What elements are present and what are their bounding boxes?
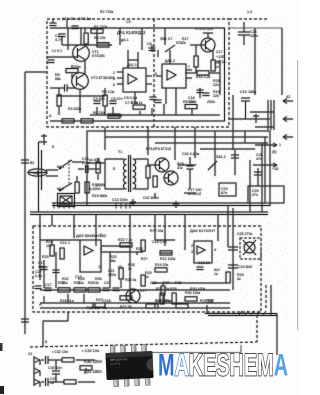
svg-text:R27 5б: R27 5б [120, 305, 132, 309]
svg-text:1n: 1n [215, 65, 219, 69]
svg-text:С15 62: С15 62 [198, 261, 210, 265]
svg-text:A: A [274, 347, 288, 383]
svg-text:22k: 22k [213, 94, 219, 98]
svg-text:1к: 1к [145, 275, 149, 279]
svg-text:2k: 2k [182, 41, 186, 45]
svg-text:R2 720к: R2 720к [100, 10, 114, 14]
svg-text:С14: С14 [60, 241, 67, 245]
svg-text:47л: 47л [252, 193, 258, 197]
svg-text:м 01х12: м 01х12 [188, 192, 201, 196]
svg-text:(2): (2) [118, 265, 122, 269]
svg-text:(1): (1) [96, 183, 100, 187]
svg-text:С42 4,10м: С42 4,10м [182, 152, 200, 156]
svg-text:R8 230к: R8 230к [93, 111, 106, 115]
svg-text:R16 2,2k: R16 2,2k [196, 75, 211, 79]
svg-text:С41 600п: С41 600п [143, 196, 159, 200]
svg-text:С25 270к: С25 270к [237, 232, 253, 236]
svg-text:R1Б 11а: R1Б 11а [60, 299, 74, 303]
svg-text:R38: R38 [170, 287, 177, 291]
svg-text:VT3 КТ315: VT3 КТ315 [195, 27, 213, 31]
svg-text:1,4: 1,4 [247, 10, 252, 14]
svg-text:R36 100А: R36 100А [84, 359, 102, 364]
svg-text:R?? 33к: R?? 33к [150, 229, 164, 233]
svg-text:4: 4 [214, 248, 216, 252]
svg-text:2: 2 [100, 233, 102, 237]
svg-text:R38: R38 [175, 281, 182, 285]
svg-text:R27: R27 [96, 298, 103, 302]
svg-text:1б2н: 1б2н [108, 273, 116, 277]
svg-text:R2?: R2? [141, 257, 148, 261]
svg-text:51к: 51к [62, 281, 68, 285]
svg-text:3к: 3к [128, 267, 132, 271]
svg-text:ВТ5,ВТ6 КТ315: ВТ5,ВТ6 КТ315 [146, 147, 171, 151]
svg-text:C4 40n: C4 40n [93, 97, 105, 101]
svg-text:330к: 330к [73, 65, 81, 69]
svg-text:КТ315Б: КТ315Б [92, 54, 105, 58]
svg-text:R37: R37 [163, 281, 170, 285]
svg-text:1: 1 [68, 241, 70, 245]
svg-text:В1: В1 [30, 161, 34, 165]
svg-text:10n: 10n [188, 100, 194, 104]
svg-text:185n: 185n [248, 90, 256, 94]
svg-text:1к: 1к [214, 272, 218, 276]
svg-text:68к: 68к [55, 77, 61, 81]
svg-text:R39 10к: R39 10к [200, 299, 214, 303]
svg-text:ДА3 К548УН1А2: ДА3 К548УН1А2 [76, 233, 107, 238]
svg-text:А: А [39, 302, 42, 307]
svg-text:С17: С17 [216, 50, 223, 54]
svg-text:м 630н: м 630н [89, 187, 100, 191]
svg-text:2: 2 [113, 71, 115, 75]
svg-text:С8: С8 [147, 42, 152, 46]
svg-text:C5 47n: C5 47n [111, 97, 123, 101]
svg-text:К1.1: К1.1 [57, 165, 64, 169]
svg-text:R26: R26 [88, 281, 95, 285]
svg-text:• С33 10н: • С33 10н [82, 348, 99, 353]
svg-text:R10 1k: R10 1k [131, 101, 143, 105]
svg-text:+12Б: +12Б [216, 55, 225, 59]
svg-text:С22: С22 [150, 281, 157, 285]
svg-text:M: M [158, 347, 175, 383]
svg-text:R31 100к: R31 100к [155, 299, 171, 303]
svg-text:+1Б: +1Б [272, 167, 279, 171]
svg-text:С13 100н: С13 100н [112, 198, 128, 202]
svg-text:С16 0,43: С16 0,43 [152, 240, 167, 244]
svg-text:VT2 КТ361БМ: VT2 КТ361БМ [91, 76, 114, 80]
svg-text:2к: 2к [237, 277, 241, 281]
svg-text:ДА1 К140УД12: ДА1 К140УД12 [117, 30, 146, 35]
svg-text:R32 20к: R32 20к [156, 287, 170, 291]
svg-text:4,7n: 4,7n [55, 38, 62, 42]
svg-text:Б: Б [45, 340, 48, 344]
svg-text:56к: 56к [110, 259, 116, 263]
svg-text:5В 2а: 5В 2а [216, 60, 225, 64]
svg-text:A: A [175, 347, 189, 383]
svg-text:11: 11 [103, 306, 107, 310]
svg-text:R9 4,3к: R9 4,3к [102, 90, 115, 94]
svg-text:К1.2: К1.2 [57, 187, 64, 191]
svg-text:R25: R25 [42, 255, 49, 259]
svg-text:KESHEM: KESHEM [189, 347, 274, 383]
svg-text:6: 6 [113, 83, 115, 87]
svg-text:11: 11 [98, 265, 102, 269]
svg-text:VТ7: VТ7 [140, 289, 147, 293]
svg-text:420n: 420n [250, 34, 258, 38]
svg-text:С1Б 47н. С3 0,1м: С1Б 47н. С3 0,1м [62, 17, 92, 21]
svg-text:R10 100к: R10 100к [160, 257, 176, 261]
svg-text:ДА1.1: ДА1.1 [127, 63, 137, 67]
svg-text:1н: 1н [50, 381, 54, 385]
svg-text:С9 0,1м: С9 0,1м [124, 96, 138, 100]
svg-text:X2: X2 [286, 95, 290, 99]
svg-text:22n: 22n [213, 83, 219, 87]
svg-text:Д31 100А: Д31 100А [84, 369, 102, 374]
svg-text:ДА1.2: ДА1.2 [165, 59, 175, 63]
svg-text:R30 100к: R30 100к [190, 287, 206, 291]
svg-text:R4 630к: R4 630к [68, 107, 82, 111]
svg-text:С21: С21 [104, 281, 111, 285]
svg-text:С3: С3 [126, 20, 131, 24]
svg-text:7: 7 [188, 65, 190, 69]
svg-text:R2Б 1Ба: R2Б 1Ба [86, 306, 100, 310]
svg-text:3: 3 [191, 250, 193, 254]
svg-text:R19 20к: R19 20к [155, 263, 169, 267]
svg-text:дА-1: дА-1 [121, 38, 129, 42]
svg-text:• С32 10н: • С32 10н [52, 350, 68, 354]
svg-text:R22 7,1к: R22 7,1к [118, 238, 133, 242]
svg-text:R24: R24 [136, 247, 143, 251]
svg-text:ЭКР1436 УН1: ЭКР1436 УН1 [110, 357, 128, 362]
svg-text:51к: 51к [78, 281, 84, 285]
svg-text:C19: C19 [240, 90, 247, 94]
svg-text:Х1: Х1 [28, 352, 32, 356]
svg-text:R19 680к: R19 680к [92, 194, 108, 198]
svg-text:R30 100к: R30 100к [185, 291, 201, 295]
svg-text:1: 1 [279, 143, 281, 147]
svg-text:3: 3 [100, 247, 102, 251]
svg-text:Т1: Т1 [118, 150, 122, 154]
svg-text:а1 63б: а1 63б [89, 158, 100, 162]
svg-text:3к: 3к [95, 281, 99, 285]
svg-text:SВ1 С7: SВ1 С7 [160, 37, 172, 41]
svg-text:SA1.2: SA1.2 [216, 155, 226, 159]
svg-text:(5): (5) [272, 150, 276, 154]
svg-text:5: 5 [155, 72, 157, 76]
svg-text:ДА4 К174УН7: ДА4 К174УН7 [190, 228, 216, 233]
svg-text:200н: 200н [207, 100, 215, 104]
svg-text:40п: 40п [38, 265, 44, 269]
svg-text:67л: 67л [221, 191, 227, 195]
svg-text:С17: С17 [45, 283, 52, 287]
svg-text:С24 В40: С24 В40 [238, 265, 252, 269]
svg-text:0,4п: 0,4п [35, 274, 42, 278]
svg-text:R28 3к: R28 3к [125, 278, 137, 282]
svg-text:R3 22k: R3 22k [94, 36, 106, 40]
svg-text:10к: 10к [46, 244, 52, 248]
svg-text:тел 9721: тел 9721 [110, 361, 121, 365]
svg-text:R1 720к: R1 720к [94, 25, 108, 29]
svg-text:2: 2 [191, 244, 193, 248]
svg-text:L1 0,1: L1 0,1 [52, 49, 62, 53]
svg-text:С30 10н: С30 10н [48, 366, 62, 370]
svg-text:47n: 47n [256, 157, 262, 161]
svg-text:31к: 31к [177, 166, 183, 170]
svg-text:С21Б: С21Б [102, 299, 112, 303]
